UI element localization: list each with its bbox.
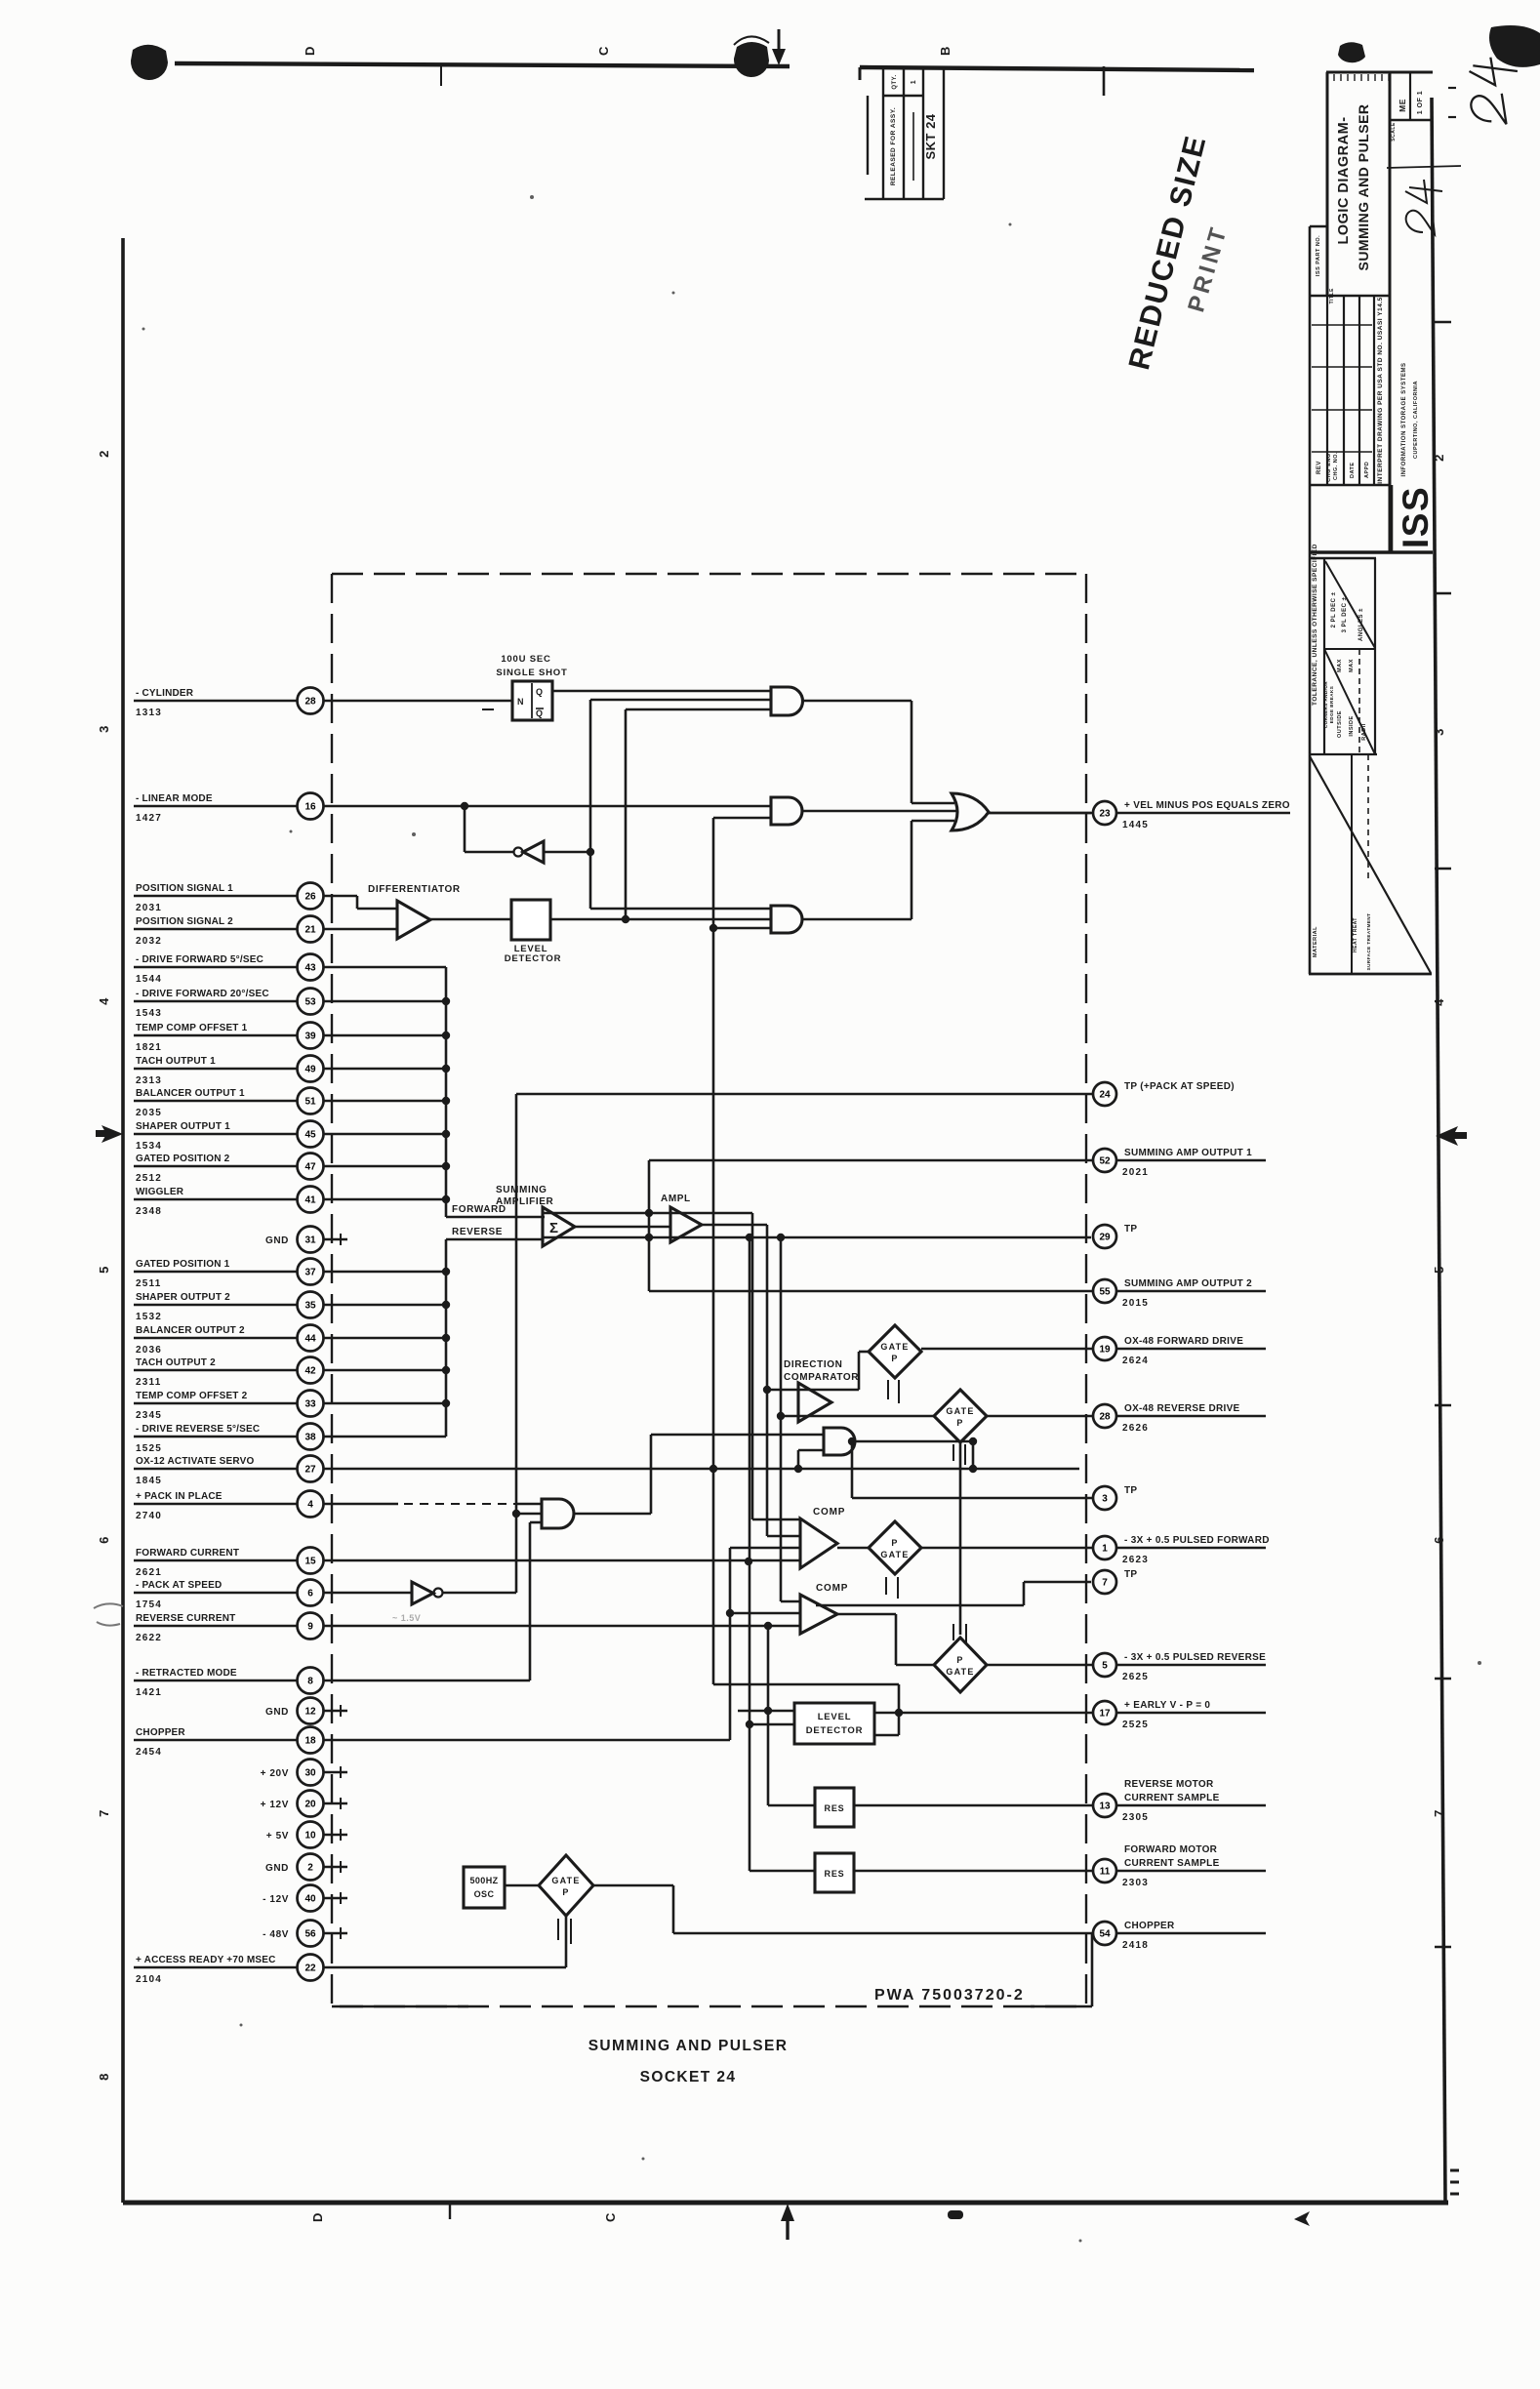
- svg-text:1754: 1754: [136, 1599, 162, 1610]
- wire OR to pin23: [989, 812, 1091, 815]
- svg-text:56: 56: [304, 1929, 316, 1940]
- svg-text:GATED POSITION 1: GATED POSITION 1: [136, 1259, 230, 1270]
- svg-text:APPD: APPD: [1364, 462, 1370, 478]
- svg-text:D: D: [310, 2212, 325, 2222]
- svg-text:SCALE: SCALE: [1391, 122, 1397, 142]
- svg-text:ISS: ISS: [1396, 486, 1436, 548]
- svg-text:8: 8: [97, 2073, 111, 2081]
- svg-text:17: 17: [1099, 1709, 1111, 1720]
- svg-text:OSC: OSC: [474, 1889, 495, 1899]
- svg-text:TEMP COMP OFFSET 2: TEMP COMP OFFSET 2: [136, 1391, 248, 1401]
- svg-text:- CYLINDER: - CYLINDER: [136, 688, 194, 699]
- output pin 11: [854, 1870, 1093, 1873]
- svg-text:1532: 1532: [136, 1312, 162, 1322]
- svg-text:FORWARD MOTOR: FORWARD MOTOR: [1124, 1844, 1218, 1855]
- svg-text:INFORMATION STORAGE SYSTEMS: INFORMATION STORAGE SYSTEMS: [1401, 363, 1407, 477]
- svg-text:LEVEL: LEVEL: [818, 1712, 852, 1722]
- wire pos1 step: [324, 895, 357, 898]
- wire A2 lower input: [713, 817, 771, 820]
- svg-text:TOLERANCE, UNLESS OTHERWISE SP: TOLERANCE, UNLESS OTHERWISE SPECIFIED: [1312, 544, 1318, 706]
- page border left: [121, 238, 125, 2203]
- gate G1: [869, 1521, 921, 1574]
- svg-text:51: 51: [304, 1097, 316, 1108]
- page border right: [1432, 98, 1445, 2203]
- svg-text:TITLE: TITLE: [1329, 288, 1335, 304]
- svg-text:C: C: [596, 46, 611, 56]
- svg-text:2511: 2511: [136, 1278, 162, 1289]
- svg-text:100U SEC: 100U SEC: [501, 654, 550, 665]
- svg-text:+ 12V: + 12V: [261, 1800, 289, 1810]
- svg-text:7: 7: [97, 1809, 111, 1817]
- wire A2 out: [802, 810, 956, 813]
- svg-text:3: 3: [1432, 728, 1446, 736]
- scale cells: [1390, 119, 1433, 121]
- svg-text:2348: 2348: [136, 1206, 162, 1217]
- svg-text:ANGLES ±: ANGLES ±: [1358, 608, 1364, 641]
- svg-text:COMP: COMP: [816, 1583, 848, 1594]
- svg-text:- LINEAR MODE: - LINEAR MODE: [136, 793, 213, 804]
- svg-text:PWA 75003720-2: PWA 75003720-2: [874, 1987, 1025, 2004]
- svg-text:39: 39: [304, 1032, 316, 1042]
- output pin 7: [1093, 1570, 1116, 1594]
- A arrowhead bottom: [1294, 2211, 1310, 2226]
- svg-text:3 PL DEC ±: 3 PL DEC ±: [1342, 596, 1348, 632]
- svg-text:2021: 2021: [1122, 1167, 1149, 1178]
- svg-text:2015: 2015: [1122, 1298, 1149, 1309]
- wire A1 out: [803, 700, 912, 703]
- svg-text:TEMP COMP OFFSET 1: TEMP COMP OFFSET 1: [136, 1023, 248, 1033]
- svg-text:38: 38: [304, 1433, 316, 1443]
- wire diff out: [430, 918, 511, 921]
- svg-text:GATE: GATE: [880, 1550, 909, 1559]
- svg-text:DATE: DATE: [1350, 462, 1356, 478]
- svg-text:6: 6: [307, 1589, 313, 1599]
- svg-text:4: 4: [97, 997, 111, 1005]
- wire LD2 inputs: [738, 1710, 794, 1713]
- junction dot linear mode: [461, 802, 468, 810]
- svg-text:2305: 2305: [1122, 1812, 1149, 1823]
- AND gate A1 (top): [771, 687, 803, 715]
- svg-text:SUMMING AMP OUTPUT 1: SUMMING AMP OUTPUT 1: [1124, 1148, 1252, 1158]
- svg-text:2622: 2622: [136, 1633, 162, 1643]
- svg-text:2623: 2623: [1122, 1555, 1149, 1565]
- svg-text:2512: 2512: [136, 1173, 162, 1184]
- output pin 19: [921, 1348, 1093, 1351]
- svg-text:40: 40: [304, 1894, 316, 1905]
- svg-text:DIFFERENTIATOR: DIFFERENTIATOR: [368, 884, 461, 895]
- vertical G28 to G5: [959, 1442, 962, 1635]
- svg-text:CURRENT SAMPLE: CURRENT SAMPLE: [1124, 1793, 1220, 1803]
- page border top: [175, 63, 790, 66]
- wire comp1 out to G1: [837, 1547, 869, 1550]
- svg-text:53: 53: [304, 997, 316, 1008]
- vertical node V748 chopper riser: [729, 1548, 732, 1740]
- svg-text:SUMMING: SUMMING: [496, 1185, 547, 1195]
- svg-text:2035: 2035: [136, 1108, 162, 1118]
- svg-text:2525: 2525: [1122, 1720, 1149, 1730]
- svg-text:SOCKET 24: SOCKET 24: [640, 2069, 737, 2085]
- svg-text:OUTSIDE: OUTSIDE: [1337, 710, 1343, 738]
- wire gate54 out: [593, 1884, 673, 1887]
- svg-text:2036: 2036: [136, 1345, 162, 1356]
- output pin 5: [988, 1664, 1093, 1667]
- svg-text:20: 20: [304, 1800, 316, 1810]
- svg-text:RES: RES: [825, 1803, 845, 1813]
- svg-text:GND: GND: [265, 1235, 289, 1246]
- OR gate O1: [952, 793, 989, 830]
- wire gate54 bottom to pin22: [565, 1916, 568, 1967]
- svg-text:ME: ME: [1398, 99, 1407, 112]
- wire A4 out riser: [574, 1513, 651, 1516]
- wire sum out: [575, 1226, 670, 1229]
- svg-text:BALANCER OUTPUT 2: BALANCER OUTPUT 2: [136, 1325, 245, 1336]
- svg-text:2418: 2418: [1122, 1940, 1149, 1951]
- svg-text:2104: 2104: [136, 1974, 162, 1985]
- dashed PWA board box: [331, 574, 333, 2006]
- svg-text:- 3X + 0.5 PULSED REVERSE: - 3X + 0.5 PULSED REVERSE: [1124, 1652, 1266, 1663]
- svg-text:8: 8: [307, 1677, 313, 1687]
- svg-text:18: 18: [304, 1736, 316, 1747]
- svg-text:2311: 2311: [136, 1377, 162, 1388]
- svg-text:7: 7: [1102, 1578, 1108, 1589]
- output pin 13: [854, 1804, 1093, 1807]
- svg-text:1544: 1544: [136, 974, 162, 985]
- svg-text:P: P: [891, 1538, 898, 1548]
- svg-text:CORNERS AND/OR: CORNERS AND/OR: [1323, 681, 1328, 729]
- svg-text:1313: 1313: [136, 708, 162, 718]
- svg-text:1421: 1421: [136, 1687, 162, 1698]
- svg-text:2621: 2621: [136, 1567, 162, 1578]
- svg-text:TACH OUTPUT 2: TACH OUTPUT 2: [136, 1357, 216, 1368]
- wire A3 top input: [590, 908, 771, 911]
- svg-text:52: 52: [1099, 1156, 1111, 1167]
- svg-text:GATE: GATE: [551, 1876, 580, 1885]
- svg-text:CHG: CHG: [1326, 468, 1332, 482]
- svg-text:47: 47: [304, 1162, 316, 1173]
- svg-text:- DRIVE FORWARD 5°/SEC: - DRIVE FORWARD 5°/SEC: [136, 954, 263, 965]
- svg-text:CHG. NO.: CHG. NO.: [1333, 452, 1339, 480]
- svg-text:42: 42: [304, 1366, 316, 1377]
- svg-text:29: 29: [1099, 1233, 1111, 1243]
- svg-text:2: 2: [1432, 454, 1446, 462]
- gate G28: [781, 1415, 934, 1418]
- svg-text:1534: 1534: [136, 1141, 162, 1152]
- svg-text:2626: 2626: [1122, 1423, 1149, 1434]
- svg-text:45: 45: [304, 1130, 316, 1141]
- svg-text:GATED POSITION 2: GATED POSITION 2: [136, 1154, 230, 1164]
- svg-text:+ PACK IN PLACE: + PACK IN PLACE: [136, 1491, 223, 1502]
- wire LD2 loop: [874, 1734, 899, 1737]
- vertical node V787: [767, 1626, 770, 1805]
- svg-text:5: 5: [97, 1266, 111, 1274]
- output pin 28: [987, 1415, 1093, 1418]
- page border bottom: [123, 2201, 1448, 2206]
- wire V731 bottom to pin17: [713, 1683, 899, 1686]
- svg-text:5: 5: [1102, 1661, 1108, 1672]
- level detector U11: [794, 1703, 874, 1744]
- svg-text:RES: RES: [825, 1869, 845, 1879]
- svg-text:1543: 1543: [136, 1008, 162, 1019]
- inverter U8: [412, 1582, 433, 1604]
- output pin 23: [989, 812, 1093, 815]
- svg-text:OX-48 REVERSE DRIVE: OX-48 REVERSE DRIVE: [1124, 1403, 1240, 1414]
- output pin 55: [649, 1290, 1093, 1293]
- svg-text:Σ: Σ: [549, 1220, 558, 1236]
- handwritten 24 corner: [1470, 58, 1518, 124]
- faint pencil squiggle left: [94, 1603, 123, 1625]
- wire retracted riser V543: [529, 1522, 532, 1680]
- wire comp2 upper slope to TP7: [816, 1604, 1024, 1607]
- svg-text:2: 2: [307, 1863, 313, 1874]
- down arrow at top border: [778, 29, 781, 51]
- svg-text:1821: 1821: [136, 1042, 162, 1053]
- svg-text:7: 7: [1432, 1809, 1446, 1817]
- svg-text:SKT 24: SKT 24: [923, 113, 938, 159]
- res R1: [768, 1804, 815, 1807]
- svg-text:- RETRACTED MODE: - RETRACTED MODE: [136, 1668, 237, 1679]
- svg-text:ISS PART NO.: ISS PART NO.: [1316, 235, 1321, 276]
- next assy line: [1387, 166, 1461, 168]
- release table: [867, 96, 869, 175]
- tolerance block: [1323, 558, 1325, 754]
- wire comp2 out elbow to G5: [837, 1613, 896, 1616]
- svg-text:GATE: GATE: [946, 1667, 974, 1677]
- svg-text:- DRIVE FORWARD 20°/SEC: - DRIVE FORWARD 20°/SEC: [136, 989, 269, 999]
- small marks near title top: [1338, 42, 1365, 62]
- comb ticks title box: [1333, 74, 1335, 81]
- svg-text:22: 22: [304, 1964, 316, 1974]
- bottom up-arrow: [786, 2217, 789, 2240]
- vertical node V768: [749, 1237, 751, 1871]
- title block outline: [1326, 72, 1329, 296]
- svg-text:GATE: GATE: [946, 1406, 974, 1416]
- B blob bottom: [948, 2210, 963, 2219]
- svg-text:6: 6: [97, 1536, 111, 1544]
- svg-text:21: 21: [304, 925, 316, 936]
- svg-text:- 12V: - 12V: [263, 1894, 289, 1905]
- svg-text:HEAT TREAT: HEAT TREAT: [1353, 917, 1358, 952]
- svg-text:RADII: RADII: [1361, 723, 1367, 740]
- svg-text:C: C: [603, 2212, 618, 2222]
- inverter U2 (bubble left): [514, 848, 523, 857]
- svg-text:1: 1: [1102, 1544, 1108, 1555]
- svg-text:2740: 2740: [136, 1511, 162, 1521]
- svg-text:OX-12 ACTIVATE SERVO: OX-12 ACTIVATE SERVO: [136, 1456, 254, 1467]
- svg-text:33: 33: [304, 1399, 316, 1410]
- svg-text:COMP: COMP: [813, 1507, 845, 1518]
- handwritten 24 (title): [1405, 180, 1442, 234]
- svg-text:4: 4: [307, 1500, 313, 1511]
- svg-text:QTY.: QTY.: [892, 74, 898, 89]
- svg-text:+ EARLY V - P = 0: + EARLY V - P = 0: [1124, 1700, 1210, 1711]
- svg-text:+ ACCESS READY +70 MSEC: + ACCESS READY +70 MSEC: [136, 1955, 276, 1965]
- svg-text:- 48V: - 48V: [263, 1929, 289, 1940]
- svg-text:RELEASED FOR ASSY.: RELEASED FOR ASSY.: [890, 107, 897, 185]
- level detector U4: [511, 900, 550, 940]
- gate G54: [539, 1855, 593, 1916]
- 500hz osc U12: [464, 1867, 505, 1908]
- svg-text:Q: Q: [536, 687, 543, 697]
- wire AMPL out: [702, 1224, 767, 1227]
- AND gate A5: [824, 1428, 855, 1455]
- svg-text:37: 37: [304, 1268, 316, 1278]
- output pin 54: [673, 1932, 1093, 1935]
- svg-text:2: 2: [97, 450, 111, 458]
- svg-text:2625: 2625: [1122, 1672, 1149, 1682]
- svg-text:11: 11: [1100, 1867, 1111, 1878]
- svg-text:1427: 1427: [136, 813, 162, 824]
- svg-text:P: P: [562, 1887, 569, 1897]
- svg-text:3: 3: [1102, 1494, 1108, 1505]
- svg-text:1: 1: [911, 80, 917, 84]
- svg-text:19: 19: [1099, 1345, 1111, 1356]
- svg-text:16: 16: [304, 802, 316, 813]
- svg-text:2303: 2303: [1122, 1878, 1149, 1888]
- svg-text:5: 5: [1432, 1266, 1446, 1274]
- svg-text:2032: 2032: [136, 936, 162, 947]
- stray specks: [412, 832, 416, 836]
- svg-text:SHAPER OUTPUT 1: SHAPER OUTPUT 1: [136, 1121, 230, 1132]
- forward bus: [445, 967, 448, 1217]
- svg-text:1 OF 1: 1 OF 1: [1417, 91, 1424, 114]
- svg-text:+ 5V: + 5V: [266, 1831, 289, 1842]
- output pin 1: [921, 1547, 1093, 1550]
- svg-text:WIGGLER: WIGGLER: [136, 1187, 184, 1197]
- svg-text:P: P: [956, 1655, 963, 1665]
- res R2: [750, 1870, 815, 1873]
- wire LD1 out: [550, 918, 771, 921]
- svg-text:~ 1.5V: ~ 1.5V: [392, 1613, 421, 1623]
- svg-text:GND: GND: [265, 1863, 289, 1874]
- svg-text:P: P: [956, 1418, 963, 1428]
- svg-text:500HZ: 500HZ: [469, 1876, 498, 1885]
- wire and2 input feeds: [590, 699, 771, 702]
- output pin 17: [874, 1712, 1093, 1715]
- svg-text:55: 55: [1099, 1287, 1111, 1298]
- bottom tick: [449, 2204, 451, 2219]
- svg-text:6: 6: [1432, 1536, 1446, 1544]
- svg-text:POSITION SIGNAL 2: POSITION SIGNAL 2: [136, 916, 233, 927]
- svg-text:TP (+PACK AT SPEED): TP (+PACK AT SPEED): [1124, 1081, 1235, 1092]
- svg-text:+ 20V: + 20V: [261, 1768, 289, 1779]
- svg-text:OX-48 FORWARD DRIVE: OX-48 FORWARD DRIVE: [1124, 1336, 1243, 1347]
- AND gate A4 (+pack in place): [542, 1499, 574, 1528]
- left border right-arrow marker: [101, 1125, 123, 1143]
- svg-text:28: 28: [304, 697, 316, 708]
- svg-text:SUMMING AND PULSER: SUMMING AND PULSER: [588, 2038, 789, 2054]
- reverse bus: [445, 1239, 448, 1437]
- svg-text:EDGE BREAKS: EDGE BREAKS: [1329, 686, 1334, 724]
- wire pack-in-place dashy: [324, 1503, 398, 1506]
- svg-text:2 PL DEC ±: 2 PL DEC ±: [1331, 591, 1337, 628]
- svg-text:P: P: [891, 1354, 898, 1363]
- vertical node V641: [625, 709, 628, 919]
- right border left-arrow marker: [1436, 1126, 1458, 1146]
- wire TP3 riser: [851, 1441, 854, 1498]
- svg-text:ENG: ENG: [1326, 453, 1332, 466]
- vertical node V771: [751, 1213, 754, 1519]
- svg-text:TP: TP: [1124, 1224, 1137, 1235]
- punch hole blob top-left: [131, 45, 168, 80]
- svg-text:SURFACE TREATMENT: SURFACE TREATMENT: [1366, 913, 1371, 971]
- svg-text:INSIDE: INSIDE: [1349, 715, 1355, 736]
- svg-text:Q: Q: [536, 709, 543, 718]
- rev table: [1326, 296, 1328, 485]
- output pin 24: [516, 1093, 1093, 1096]
- svg-text:54: 54: [1099, 1929, 1111, 1940]
- svg-text:1845: 1845: [136, 1476, 162, 1486]
- svg-text:10: 10: [304, 1831, 316, 1842]
- svg-text:- PACK AT SPEED: - PACK AT SPEED: [136, 1580, 222, 1591]
- svg-text:POSITION SIGNAL 1: POSITION SIGNAL 1: [136, 883, 233, 894]
- AND gate A3 (bottom): [771, 906, 802, 933]
- svg-text:TP: TP: [1124, 1569, 1137, 1580]
- output pin 52: [649, 1159, 1093, 1162]
- svg-text:41: 41: [304, 1195, 316, 1206]
- svg-text:DETECTOR: DETECTOR: [806, 1725, 863, 1736]
- svg-text:27: 27: [304, 1465, 316, 1476]
- wire osc to gate: [505, 1884, 539, 1887]
- svg-text:15: 15: [304, 1557, 316, 1567]
- svg-text:AMPLIFIER: AMPLIFIER: [496, 1196, 553, 1207]
- svg-text:DIRECTION: DIRECTION: [784, 1359, 842, 1370]
- svg-text:SUMMING AMP OUTPUT 2: SUMMING AMP OUTPUT 2: [1124, 1278, 1252, 1289]
- svg-text:2345: 2345: [136, 1410, 162, 1421]
- svg-text:MAX: MAX: [1349, 659, 1355, 672]
- svg-text:1445: 1445: [1122, 820, 1149, 830]
- svg-text:- 3X + 0.5 PULSED FORWARD: - 3X + 0.5 PULSED FORWARD: [1124, 1535, 1270, 1546]
- vertical node V800: [780, 1237, 783, 1601]
- svg-text:- DRIVE REVERSE 5°/SEC: - DRIVE REVERSE 5°/SEC: [136, 1424, 260, 1435]
- material box: [1351, 754, 1353, 973]
- wire bypass top: [543, 1212, 752, 1215]
- svg-text:26: 26: [304, 892, 316, 903]
- svg-text:2624: 2624: [1122, 1356, 1149, 1366]
- svg-text:TP: TP: [1124, 1485, 1137, 1496]
- wire A3 out: [802, 918, 912, 921]
- punch hole blob top-middle: [734, 42, 769, 77]
- svg-text:13: 13: [1099, 1802, 1111, 1812]
- svg-text:49: 49: [304, 1065, 316, 1075]
- svg-text:28: 28: [1099, 1412, 1111, 1423]
- svg-text:4: 4: [1432, 998, 1446, 1006]
- svg-text:30: 30: [304, 1768, 316, 1779]
- svg-text:2454: 2454: [136, 1747, 162, 1758]
- svg-text:GATE: GATE: [880, 1342, 909, 1352]
- svg-text:REV: REV: [1317, 461, 1322, 474]
- svg-text:D: D: [303, 46, 317, 56]
- svg-text:REVERSE MOTOR: REVERSE MOTOR: [1124, 1779, 1214, 1790]
- wire pack-at-speed riser V529: [515, 1094, 518, 1593]
- svg-text:DETECTOR: DETECTOR: [505, 953, 561, 964]
- svg-text:REVERSE CURRENT: REVERSE CURRENT: [136, 1613, 235, 1624]
- output pin 29: [1093, 1225, 1116, 1248]
- svg-text:LOGIC DIAGRAM-: LOGIC DIAGRAM-: [1336, 116, 1352, 244]
- svg-text:9: 9: [307, 1622, 313, 1633]
- svg-text:MAX: MAX: [1337, 659, 1343, 672]
- wire A5 out: [855, 1440, 973, 1443]
- svg-text:REVERSE: REVERSE: [452, 1227, 503, 1237]
- svg-text:B: B: [938, 46, 952, 56]
- svg-text:2031: 2031: [136, 903, 162, 913]
- svg-text:SHAPER OUTPUT 2: SHAPER OUTPUT 2: [136, 1292, 230, 1303]
- svg-text:INTERPRET DRAWING PER USA STD: INTERPRET DRAWING PER USA STD NO. USASI …: [1377, 297, 1384, 484]
- svg-text:24: 24: [1099, 1090, 1111, 1101]
- svg-text:43: 43: [304, 963, 316, 974]
- AND gate A2 (middle): [771, 797, 802, 825]
- corner dashes bottom-right: [1450, 2169, 1459, 2172]
- node V665: [648, 1160, 651, 1291]
